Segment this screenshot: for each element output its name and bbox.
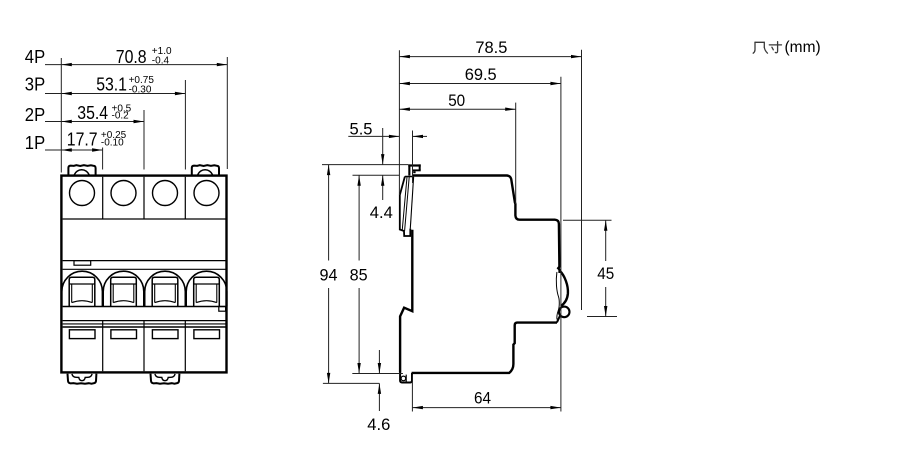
arrows 64 [412,406,423,409]
toggle handle pole1 [69,277,95,306]
terminal screw circle pole1 [70,181,95,206]
toggle dome pole4 [186,271,227,306]
arrows 2P [61,120,72,123]
toggle dome pole3 [145,271,186,306]
loop to step [557,316,560,323]
arrows 50 [399,108,410,111]
arrows 4P [61,63,72,66]
svg-text:53.1: 53.1 [96,74,127,94]
ext line 64 left [411,375,413,412]
toggle zone top line [63,268,227,270]
mid panel line [63,260,227,262]
svg-text:4.4: 4.4 [370,204,393,222]
ext line rear face [560,77,562,412]
SIDE VIEW [400,164,570,382]
ext line hook top [322,164,408,166]
svg-text:3P: 3P [25,75,45,95]
ext line 78.5 [581,50,583,310]
bottom terminal slot pole2 [111,330,137,339]
terminal screw circle pole3 [153,181,178,206]
breaker body outline [61,176,226,373]
ext 45 bottom [587,316,617,318]
din foot [400,372,412,383]
arrows 4.4 [381,154,384,165]
svg-text:-0.10: -0.10 [101,138,124,149]
dimension line 3P [45,93,185,95]
arrows 1P [61,148,72,151]
svg-text:94: 94 [320,266,338,284]
svg-text:45: 45 [597,265,614,283]
toggle lever [400,177,411,237]
arrows 94 [327,165,330,176]
terminal screw circle pole4 [194,181,219,206]
extension line 2P [143,110,145,170]
arrows 78.5 [399,55,410,58]
arrows 4.6 [378,363,381,374]
arrows 3P [61,92,72,95]
dimension line 1P [45,149,103,151]
spring thin line [556,272,559,320]
svg-text:35.4: 35.4 [77,103,108,123]
svg-text:1P: 1P [25,133,45,153]
svg-text:70.8: 70.8 [116,47,147,67]
dimension line 2P [45,121,144,123]
ext line body top [353,174,400,176]
right notch [219,307,226,312]
svg-text:50: 50 [448,92,465,110]
bottom clip pole3 [151,374,180,384]
pole divider (top row) [103,177,186,219]
glyph 寸 [769,44,781,46]
extension line 1P [102,148,104,170]
svg-text:(mm): (mm) [785,39,821,56]
dim 5.5 lines [348,135,399,137]
dim line 69.5 [399,83,561,85]
FRONT VIEW [61,165,226,384]
dimension line 4P [45,64,227,66]
extension line 3P [184,80,186,170]
top mounting clip pole1 [68,165,95,175]
dim 4.6 stems [378,350,380,374]
extension line 4P [226,57,228,169]
toggle base line [63,306,227,308]
dim line 94 [328,165,330,261]
arrows 85 [357,175,360,186]
ext line body bottom [352,373,403,375]
rear latch bulge [560,271,568,307]
bottom terminal slot pole4 [194,330,220,339]
ext line 50 [515,103,517,204]
svg-text:64: 64 [474,389,491,407]
svg-text:-0.2: -0.2 [112,111,130,122]
svg-text:2P: 2P [25,105,45,125]
extension line left [60,58,62,173]
dim 4.4 stems [382,128,384,165]
pole divider (bottom) [103,321,186,371]
top clip hook [408,164,420,175]
svg-text:5.5: 5.5 [350,120,373,138]
bottom terminal slot pole3 [152,330,178,339]
front face lower [400,230,412,373]
top mounting clip pole4 [192,165,219,175]
bottom terminal slot pole1 [69,330,95,339]
foot hook [405,375,407,383]
ext 45 top [563,219,612,221]
toggle handle pole2 [111,277,137,306]
title 尺寸 (mm) [753,42,781,54]
svg-text:85: 85 [350,266,368,284]
svg-text:4.6: 4.6 [367,416,390,434]
ext line foot bottom [323,382,380,384]
arrows 5.5 [389,135,400,138]
terminal screw circle pole2 [111,181,136,206]
toggle handle pole4 [194,277,220,306]
SIDE VIEW DIMENSIONS [322,50,617,412]
toggle dome pole2 [103,271,144,306]
bottom clip pole1 [68,374,97,384]
bottom step and bottom [412,323,557,373]
svg-text:-0.30: -0.30 [129,84,152,95]
latch loop [559,307,570,318]
toggle dome pole1 [62,271,103,306]
top face [413,176,560,274]
dim line 45 [605,220,607,261]
ext line toggle tip [412,131,414,184]
FRONT VIEW DIMENSIONS [45,57,227,173]
dim line 64 [412,407,561,409]
svg-text:17.7: 17.7 [67,130,98,150]
arrows 45 [604,220,607,231]
dim line 50 [399,108,515,110]
svg-text:69.5: 69.5 [465,66,497,84]
toggle handle pole3 [152,277,178,306]
svg-text:78.5: 78.5 [475,39,507,57]
glyph 尺 [755,42,764,47]
lower band lines [63,320,227,322]
label window [74,261,91,266]
svg-text:-0.4: -0.4 [152,55,170,66]
ext line front face [398,50,400,195]
dim line 85 [358,175,360,260]
terminal row line [63,218,227,220]
svg-text:4P: 4P [25,47,45,67]
arrows 69.5 [399,82,410,85]
dim line 78.5 [399,56,581,58]
